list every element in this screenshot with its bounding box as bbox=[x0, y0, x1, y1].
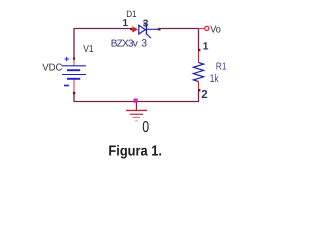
svg-text:3: 3 bbox=[141, 38, 147, 50]
svg-text:Vo: Vo bbox=[210, 24, 221, 35]
svg-text:1: 1 bbox=[123, 18, 129, 29]
svg-text:1k: 1k bbox=[210, 73, 219, 85]
svg-text:V1: V1 bbox=[83, 44, 94, 55]
svg-text:VDC: VDC bbox=[42, 63, 62, 74]
svg-text:R1: R1 bbox=[216, 62, 227, 73]
svg-text:3: 3 bbox=[143, 19, 149, 30]
svg-text:BZX3v: BZX3v bbox=[111, 39, 138, 50]
svg-text:0: 0 bbox=[142, 119, 149, 136]
svg-text:1: 1 bbox=[203, 40, 209, 52]
svg-text:Figura 1.: Figura 1. bbox=[108, 143, 162, 159]
svg-text:2: 2 bbox=[201, 89, 207, 101]
